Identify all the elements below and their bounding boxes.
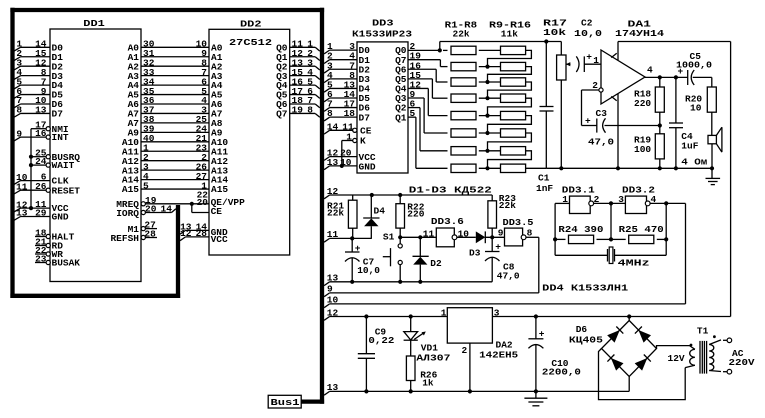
ground symbol (power) — [535, 391, 537, 398]
svg-text:27C512: 27C512 — [229, 37, 272, 48]
svg-text:8: 8 — [307, 105, 313, 116]
wire DD1 A15 pin 5 to DD2 A15 pin 1 — [141, 188, 209, 190]
IC DD2 (EPROM 27C512) box — [209, 29, 290, 255]
diode D2 KD522 — [419, 237, 421, 256]
resistor R6 22k (DAC ladder bit) — [451, 129, 476, 137]
wire bus line 12 to DD1 VCC — [14, 208, 21, 212]
svg-text:C2: C2 — [581, 18, 593, 29]
wire bus line 3 to DD1 D2 pin 12 — [14, 66, 21, 70]
DD3 pin 11 CE from bus line 14 — [324, 130, 330, 134]
resistor R10 11k (DAC ladder chain) — [479, 66, 501, 68]
speaker 4 Ohm — [711, 112, 713, 135]
bridge diode lower-right — [635, 358, 648, 371]
wire bus line 10 to DD1 CLK — [14, 181, 21, 185]
wire DD1 A12 pin 2 to DD2 A12 pin 2 — [141, 160, 209, 162]
capacitor C7 10,0 electrolytic — [351, 238, 353, 252]
svg-text:28: 28 — [196, 228, 208, 239]
wire bus line 13 (middle row) — [324, 282, 330, 286]
svg-text:18: 18 — [344, 108, 356, 119]
op-amp DA1 174UN14 triangle — [601, 50, 645, 104]
svg-text:47,0: 47,0 — [588, 137, 614, 148]
svg-text:3: 3 — [618, 194, 624, 205]
wire DD1 A10 pin 40 to DD2 A10 pin 21 — [141, 141, 209, 143]
wire ladder top rail to R17 — [439, 42, 441, 51]
svg-text:4MHz: 4MHz — [618, 257, 650, 268]
svg-text:A15: A15 — [122, 184, 139, 195]
svg-text:3: 3 — [494, 307, 500, 318]
svg-text:R24 390: R24 390 — [558, 224, 603, 235]
node ladder junction row 5 — [485, 114, 489, 118]
svg-text:220: 220 — [407, 209, 424, 220]
svg-text:+: + — [539, 329, 545, 340]
wire bus line 11 (to C7/D4) — [324, 238, 330, 242]
wire DD2 Q5 pin 17 to bus line 6 — [290, 94, 316, 96]
svg-text:2: 2 — [592, 80, 598, 91]
svg-text:11: 11 — [423, 228, 435, 239]
svg-text:1nF: 1nF — [536, 183, 553, 194]
svg-text:Q7: Q7 — [276, 109, 288, 120]
wire DD2 Q2 pin 13 to bus line 3 — [290, 65, 316, 67]
svg-text:10: 10 — [327, 295, 339, 306]
resistor R23 22k — [491, 195, 493, 201]
wire +supply right side vertical — [730, 42, 732, 317]
wire bus line 2 to DD3 D1 pin 4 — [324, 60, 330, 64]
wire ladder link row 4 to row 5 — [488, 98, 532, 115]
svg-text:13: 13 — [327, 382, 339, 393]
svg-text:D3: D3 — [469, 247, 481, 258]
svg-text:12: 12 — [327, 186, 339, 197]
svg-text:CE: CE — [360, 125, 372, 136]
wire bus line 6 to DD3 D5 pin 14 — [324, 98, 330, 102]
resistor R20 10 — [711, 77, 713, 87]
svg-text:10,0: 10,0 — [574, 28, 602, 39]
wire DD3.5 output to bus line 9 (INT) — [526, 236, 539, 238]
diode D4 KD522 — [370, 195, 372, 218]
svg-text:8: 8 — [327, 108, 333, 119]
svg-text:11: 11 — [327, 229, 339, 240]
resistor R7 22k (DAC ladder bit) — [451, 147, 476, 155]
wire DD1 A3 pin 33 to DD2 A3 pin 7 — [141, 75, 209, 77]
svg-text:4 Ом: 4 Ом — [681, 157, 707, 168]
wire DD1 A14 pin 4 to DD2 A14 pin 27 — [141, 179, 209, 181]
svg-text:КЦ405: КЦ405 — [569, 334, 603, 345]
resistor R16 11k (DAC ladder chain) — [479, 167, 501, 169]
svg-text:22k: 22k — [499, 200, 516, 211]
svg-text:11: 11 — [16, 181, 28, 192]
svg-text:D7: D7 — [52, 109, 64, 120]
T1 polarity dot secondary — [690, 344, 693, 347]
wire bridge minus corner to 0V rail — [628, 377, 630, 392]
svg-text:14: 14 — [161, 203, 173, 214]
svg-text:К1533ИР23: К1533ИР23 — [352, 28, 412, 39]
wire DD2 Q4 pin 16 to bus line 5 — [290, 84, 316, 86]
svg-text:АЛ307: АЛ307 — [416, 352, 450, 363]
node ladder junction row 2 — [485, 65, 489, 69]
capacitor C8 47,0 electrolytic — [491, 237, 493, 251]
wire bus line 7 to DD3 D6 pin 17 — [324, 108, 330, 112]
node ladder junction row 4 — [485, 96, 489, 100]
svg-text:22k: 22k — [453, 29, 470, 40]
wire node S1/R22/D2 to DD3.6 input pin 11 — [400, 236, 436, 238]
wire bus line 4 to DD3 D3 pin 8 — [324, 79, 330, 83]
bus segment between DD1 and DD2 (lines 12,13,14) — [176, 205, 180, 298]
svg-text:13: 13 — [327, 157, 339, 168]
svg-text:5: 5 — [143, 180, 149, 191]
wire DD1 A0 pin 30 to DD2 A0 pin 10 — [141, 46, 209, 48]
svg-text:14: 14 — [327, 122, 339, 133]
wire DD1 A6 pin 36 to DD2 A6 pin 4 — [141, 103, 209, 105]
capacitor C1 1nF — [545, 42, 547, 107]
resistor R4 22k (DAC ladder bit) — [451, 94, 476, 102]
ground symbol (analog) — [711, 168, 713, 178]
wire bus line 11 to DD1 RESET — [14, 190, 21, 194]
resistor R5 22k (DAC ladder bit) — [451, 111, 476, 119]
svg-text:13: 13 — [16, 208, 28, 219]
wire bus line 1 to DD1 D0 pin 14 — [14, 47, 21, 51]
svg-text:C3: C3 — [596, 108, 608, 119]
T1 secondary winding 12V — [690, 349, 695, 365]
wire oscillator output to bus line 10 (CLK) — [685, 203, 687, 304]
wire DD2 Q0 pin 11 to bus line 1 — [290, 46, 316, 48]
node ladder junction row 3 — [485, 80, 489, 84]
svg-text:2: 2 — [462, 345, 468, 356]
wire DD1 A8 pin 38 to DD2 A8 pin 25 — [141, 122, 209, 124]
resistor R15 11k (DAC ladder chain) — [479, 150, 501, 152]
thick bus frame around DD1 (system bus outline) — [10, 8, 324, 12]
svg-text:DD4 К1533ЛН1: DD4 К1533ЛН1 — [542, 282, 628, 293]
wire bus line 2 to DD1 D1 pin 15 — [14, 57, 21, 61]
svg-text:12: 12 — [180, 228, 192, 239]
svg-text:R25 470: R25 470 — [619, 224, 664, 235]
svg-text:S1: S1 — [383, 232, 395, 243]
svg-text:D4: D4 — [374, 205, 386, 216]
bridge diode upper-left — [607, 330, 620, 343]
wire bus line 1 to DD3 D0 pin 3 — [324, 50, 330, 54]
potentiometer R17 10k — [560, 42, 562, 56]
capacitor C3 47,0 electrolytic — [582, 125, 597, 127]
svg-text:9: 9 — [327, 284, 333, 295]
resistor R9 11k (DAC ladder chain) — [479, 49, 501, 51]
wire ladder link row 6 to row 7 — [488, 133, 532, 151]
svg-text:100: 100 — [634, 144, 651, 155]
svg-text:9: 9 — [16, 128, 22, 139]
wire DD2 Q3 pin 15 to bus line 4 — [290, 75, 316, 77]
svg-text:1: 1 — [562, 194, 568, 205]
svg-text:+: + — [585, 116, 591, 127]
wire ladder link row 5 to row 6 — [488, 116, 532, 133]
svg-text:10k: 10k — [543, 27, 566, 38]
svg-text:9: 9 — [498, 227, 504, 238]
wire bus line 3 to DD3 D2 pin 7 — [324, 69, 330, 73]
svg-text:10: 10 — [690, 103, 702, 114]
wire ladder link row 7 to row 8 — [488, 151, 532, 169]
node ladder junction row 8 — [485, 166, 489, 170]
svg-text:12: 12 — [327, 307, 339, 318]
wire DD2 Q7 pin 19 to bus line 8 — [290, 112, 316, 114]
wire DD1 A11 pin 1 to DD2 A11 pin 23 — [141, 150, 209, 152]
svg-text:1k: 1k — [422, 377, 434, 388]
DA1 pin 2 inverting input with C3 feedback — [599, 88, 603, 92]
svg-text:D7: D7 — [359, 112, 371, 123]
resistor R13 11k (DAC ladder chain) — [479, 115, 501, 117]
R17 wiper arrow — [566, 63, 571, 65]
connector Bus1 label box — [268, 395, 301, 408]
node ladder junction row 7 — [485, 149, 489, 153]
T1 core — [699, 341, 701, 374]
capacitor C2 10,0 electrolytic coupling — [576, 56, 579, 72]
resistor R2 22k (DAC ladder bit) — [451, 62, 476, 70]
node ladder junction row 6 — [485, 131, 489, 135]
AC input terminals 220V — [709, 340, 721, 345]
DA1 output pin 4 node — [645, 76, 688, 78]
resistor R14 11k (DAC ladder chain) — [479, 132, 501, 134]
wire bus line 12 (power +5V row) — [324, 317, 330, 321]
wire bus line 13 to DD3 GND pin 10 — [324, 166, 330, 170]
svg-text:1: 1 — [593, 55, 599, 66]
wire MREQ branch to DD2 CE pin 20 — [191, 204, 193, 213]
svg-text:20: 20 — [197, 197, 209, 208]
svg-text:DD2: DD2 — [240, 19, 262, 30]
bridge diode lower-left — [611, 358, 624, 371]
svg-text:INT: INT — [52, 132, 69, 143]
svg-text:GND: GND — [359, 161, 376, 172]
svg-text:A15: A15 — [211, 184, 228, 195]
IC DD1 (CPU Z80) box — [50, 29, 141, 282]
svg-text:142ЕН5: 142ЕН5 — [479, 349, 518, 360]
wire ladder output row 8 to analog rail — [526, 167, 547, 169]
resistor R26 1k — [406, 356, 415, 381]
svg-text:1: 1 — [441, 307, 447, 318]
svg-text:+: + — [586, 52, 592, 63]
svg-text:RESET: RESET — [52, 185, 81, 196]
T1 polarity dot primary — [713, 335, 716, 338]
analog ground rail — [546, 167, 712, 169]
wire bus line 12 to DD3 VCC pin 20 — [324, 157, 330, 161]
wire ladder link row 2 to row 3 — [488, 67, 532, 82]
wire ladder link row 1 to row 2 — [488, 50, 532, 66]
resistor R11 11k (DAC ladder chain) — [479, 81, 501, 83]
svg-text:REFSH: REFSH — [110, 233, 139, 244]
svg-text:DD3.6: DD3.6 — [431, 216, 464, 227]
wire bus line 13 (power 0V row) — [324, 391, 330, 395]
resistor R8 22k (DAC ladder bit) — [451, 164, 476, 172]
wire bus line 12 (middle row) — [324, 195, 330, 199]
svg-text:12V: 12V — [668, 353, 685, 364]
svg-text:19: 19 — [292, 105, 304, 116]
wire pull-up net NMI/BUSRQ/WAIT to VCC — [31, 128, 46, 130]
wire bus line 4 to DD1 D3 pin 8 — [14, 76, 21, 80]
wire DD1 A9 pin 39 to DD2 A9 pin 24 — [141, 131, 209, 133]
wire bus line 12 to DD2 VCC pin 28 — [180, 237, 186, 241]
svg-text:11k: 11k — [501, 29, 518, 40]
svg-text:220: 220 — [634, 98, 651, 109]
wire DD1 A5 pin 35 to DD2 A5 pin 5 — [141, 94, 209, 96]
svg-text:D2: D2 — [430, 258, 442, 269]
svg-text:T1: T1 — [697, 325, 709, 336]
wire DD1 A2 pin 32 to DD2 A2 pin 8 — [141, 65, 209, 67]
DD3 pin 1 K clock input tied to GND wire — [353, 138, 357, 142]
resistor R22 220 — [399, 195, 401, 204]
svg-text:GND: GND — [52, 212, 69, 223]
resistor R12 11k (DAC ladder chain) — [479, 97, 501, 99]
svg-text:28: 28 — [144, 229, 156, 240]
capacitor C9 0,22 — [365, 317, 367, 354]
crystal 4MHz — [555, 254, 607, 256]
wire DD1 A7 pin 37 to DD2 A7 pin 3 — [141, 112, 209, 114]
svg-text:1: 1 — [346, 132, 352, 143]
svg-text:13: 13 — [327, 273, 339, 284]
capacitor C4 1uF — [675, 77, 677, 123]
svg-text:47,0: 47,0 — [497, 270, 520, 281]
svg-text:2200,0: 2200,0 — [542, 367, 581, 378]
wire bus line 8 to DD3 D7 pin 18 — [324, 117, 330, 121]
bridge diode upper-right — [638, 330, 651, 343]
svg-text:WAIT: WAIT — [52, 160, 75, 171]
svg-text:1uF: 1uF — [681, 141, 698, 152]
wire DD2 Q1 pin 12 to bus line 2 — [290, 56, 316, 58]
wire bus line 9 to DD1 INT — [14, 137, 21, 141]
svg-text:10: 10 — [340, 157, 352, 168]
node ladder top (MSB) junction — [438, 48, 442, 52]
wire DD1 A1 pin 31 to DD2 A1 pin 9 — [141, 56, 209, 58]
wire bus line 8 to DD1 D7 pin 13 — [14, 113, 21, 117]
svg-text:22k: 22k — [327, 208, 344, 219]
wire bus line 7 to DD1 D6 pin 10 — [14, 104, 21, 108]
svg-text:+: + — [678, 66, 684, 77]
svg-text:4: 4 — [647, 65, 653, 76]
LED VD1 AL307 — [410, 317, 412, 332]
svg-text:VCC: VCC — [211, 234, 228, 245]
wire bus line 6 to DD1 D5 pin 9 — [14, 95, 21, 99]
svg-text:BUSAK: BUSAK — [52, 258, 81, 269]
svg-text:10,0: 10,0 — [357, 265, 380, 276]
wire ladder link row 3 to row 4 — [488, 82, 532, 98]
DD1 unconnected pin stubs HALT RD WR BUSAK — [35, 236, 46, 238]
svg-text:0,22: 0,22 — [368, 335, 394, 346]
wire bus line 13 to DD2 GND pin 14 — [180, 230, 186, 234]
svg-text:Q1: Q1 — [395, 112, 407, 123]
wire bus line 13 to DD1 GND — [14, 217, 21, 221]
resistor R1 22k (DAC ladder bit) — [451, 46, 476, 54]
svg-text:DD3: DD3 — [372, 17, 394, 28]
resistor R19 100 feedback — [655, 134, 664, 159]
voltage regulator DA2 142EN5 — [447, 308, 492, 343]
wire bridge AC right corner to transformer secondary top — [657, 346, 695, 350]
svg-text:Bus1: Bus1 — [271, 397, 300, 408]
svg-text:C1: C1 — [538, 173, 550, 184]
svg-text:13: 13 — [35, 105, 47, 116]
bus Bus1 right vertical segment — [320, 8, 324, 404]
DA1 power pin marks and supply wires — [611, 53, 616, 57]
resistor R21 22k — [352, 195, 354, 200]
wire DD1 A13 pin 3 to DD2 A13 pin 26 — [141, 169, 209, 171]
svg-text:174УН14: 174УН14 — [615, 28, 664, 39]
svg-text:20: 20 — [145, 203, 157, 214]
svg-text:D1-D3 КД522: D1-D3 КД522 — [409, 185, 492, 196]
svg-text:CE: CE — [211, 206, 223, 217]
svg-text:220V: 220V — [729, 357, 755, 368]
wire bus line 5 to DD1 D4 pin 7 — [14, 85, 21, 89]
wire DD1 A4 pin 34 to DD2 A4 pin 6 — [141, 84, 209, 86]
resistor R18 220 feedback — [659, 77, 661, 87]
IC DD3 (register K1533IR23) box — [357, 42, 408, 173]
wire bridge AC left corner to transformer secondary — [599, 349, 686, 400]
resistor R3 22k (DAC ladder bit) — [451, 78, 476, 86]
capacitor C10 2200,0 electrolytic — [535, 317, 537, 339]
svg-text:DD1: DD1 — [83, 18, 105, 29]
diode D3 KD522 — [476, 231, 486, 243]
svg-text:8: 8 — [16, 105, 22, 116]
svg-text:IORQ: IORQ — [116, 208, 139, 219]
svg-text:K: K — [360, 136, 366, 147]
T1 primary winding 220V — [709, 345, 714, 371]
wire DD2 Q6 pin 18 to bus line 7 — [290, 103, 316, 105]
wire bus line 5 to DD3 D4 pin 13 — [324, 88, 330, 92]
